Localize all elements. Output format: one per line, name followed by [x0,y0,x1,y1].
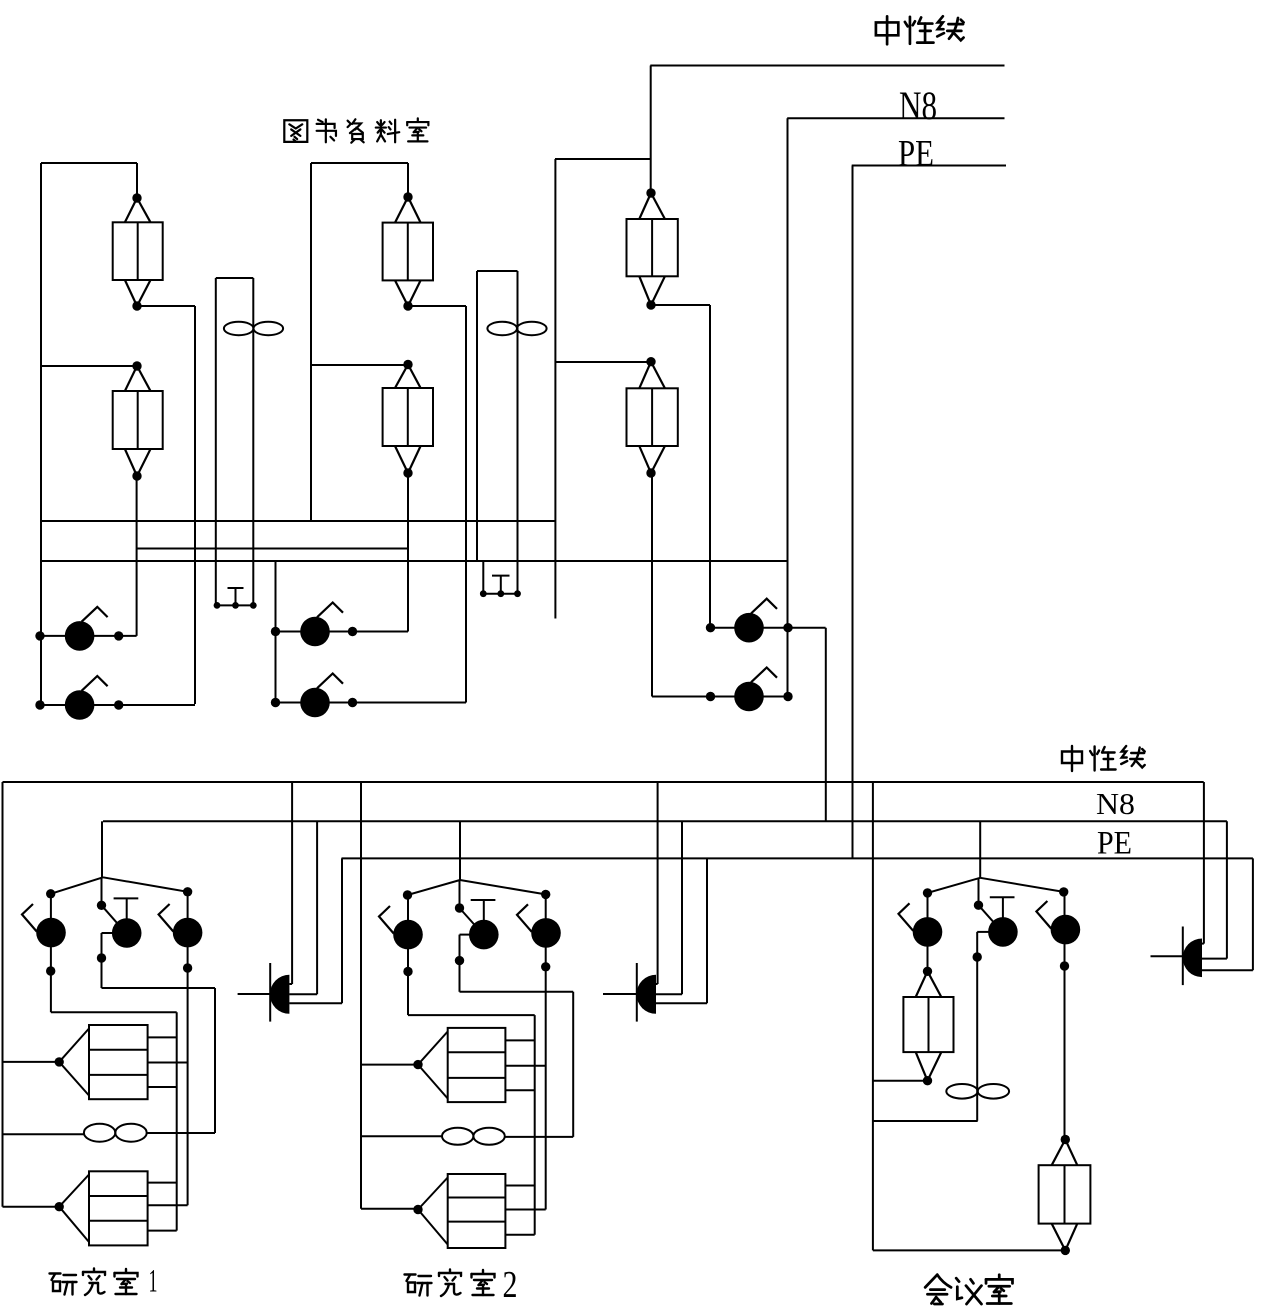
svg-text:N8: N8 [899,83,937,128]
svg-text:PE: PE [898,134,934,175]
svg-text:1: 1 [149,1264,158,1300]
svg-text:N8: N8 [1096,787,1135,821]
svg-text:PE: PE [1097,826,1132,862]
svg-text:2: 2 [503,1264,518,1306]
